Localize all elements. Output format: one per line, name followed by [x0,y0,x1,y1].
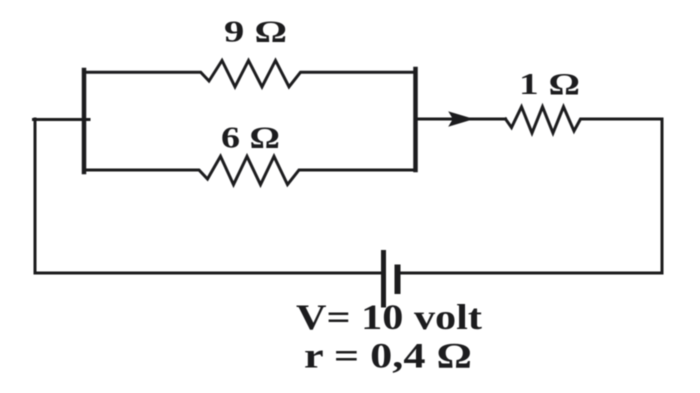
svg-text:1 Ω: 1 Ω [519,66,580,101]
svg-text:V= 10 volt: V= 10 volt [296,297,482,337]
svg-text:r = 0,4 Ω: r = 0,4 Ω [304,336,472,376]
wire from parallel block to 1 ohm resistor [416,118,506,121]
wire bottom left segment [35,272,383,275]
resistor 6 ohm (bottom branch) with wires [84,156,416,184]
wire stub to parallel node [34,118,90,121]
wire bottom right segment [398,272,663,275]
resistor 1 ohm with wires [506,107,663,133]
svg-text:6 Ω: 6 Ω [221,120,280,155]
svg-text:9 Ω: 9 Ω [224,14,287,49]
wire left vertical [34,119,37,273]
resistor 9 ohm (top branch) with wires [84,61,416,87]
battery long plate (positive) [381,253,386,306]
current arrow [450,112,473,125]
wire right vertical [661,119,664,273]
node right bus bar [413,69,418,170]
battery short plate (negative) [395,268,401,292]
node left bus bar [82,70,87,172]
